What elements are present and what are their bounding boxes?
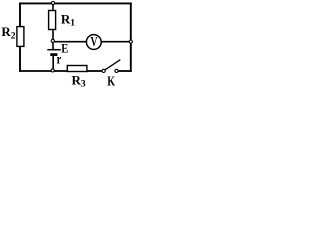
wire left upper xyxy=(19,3,21,28)
node B middle junction xyxy=(51,39,54,42)
voltmeter U1 xyxy=(86,34,101,49)
wire voltmeter branch right xyxy=(101,41,130,43)
wire top xyxy=(19,2,132,4)
svg-text:R2: R2 xyxy=(1,24,15,41)
resistor R3 xyxy=(67,66,87,72)
wire R1 bottom to node B xyxy=(52,30,54,42)
resistor R2 xyxy=(17,27,24,47)
battery E negative plate xyxy=(50,53,57,56)
svg-text:E: E xyxy=(61,41,68,56)
svg-text:K: K xyxy=(107,73,115,88)
svg-text:V: V xyxy=(91,34,98,49)
svg-text:R1: R1 xyxy=(61,11,75,28)
svg-text:R3: R3 xyxy=(72,72,86,89)
wire switch to right xyxy=(118,70,131,72)
node C bottom junction xyxy=(51,69,54,72)
battery E positive plate xyxy=(47,49,61,51)
wire battery top lead xyxy=(52,43,54,50)
wire battery bottom lead xyxy=(52,56,54,71)
switch K xyxy=(102,60,120,73)
node A top junction xyxy=(51,1,54,4)
resistor R1 xyxy=(49,11,56,30)
svg-text:r: r xyxy=(57,52,62,67)
wire right xyxy=(130,3,132,72)
wire voltmeter branch left xyxy=(53,41,87,43)
wire left lower xyxy=(19,46,21,72)
node D right junction xyxy=(129,40,132,43)
wire R3 to switch xyxy=(87,70,102,72)
wire stub R1 top xyxy=(52,4,54,11)
wire bottom left xyxy=(19,70,68,72)
